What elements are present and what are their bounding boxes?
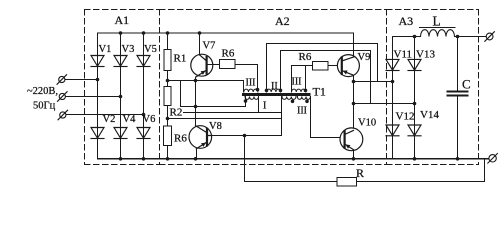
wire rectifier column V1/V2 <box>97 33 99 159</box>
diode V14 <box>408 125 421 136</box>
svg-text:V8: V8 <box>209 121 222 132</box>
svg-text:A1: A1 <box>115 13 130 27</box>
output terminal bottom <box>488 154 498 164</box>
input terminal 3 <box>58 110 68 120</box>
wire rail drop to winding III-left <box>243 81 245 93</box>
svg-text:R2: R2 <box>170 107 183 119</box>
diode V11 <box>386 59 399 70</box>
wire V7 emitter to V8 collector <box>195 77 197 126</box>
transformer winding IIIb bottom <box>282 97 310 100</box>
wire capacitor leads <box>457 37 459 159</box>
svg-text:V5: V5 <box>144 44 157 55</box>
wire phase 3 <box>66 114 144 116</box>
wire winding IIIb left column <box>281 97 283 136</box>
output terminal top <box>485 32 495 42</box>
wire winding I right jog <box>184 97 282 113</box>
wire winding I left connection <box>181 97 246 107</box>
transformer winding II <box>267 89 281 92</box>
diode V4 <box>114 128 127 139</box>
svg-text:C: C <box>462 77 471 92</box>
svg-text:R6: R6 <box>222 48 235 60</box>
wire phase 2 <box>66 96 121 98</box>
resistor R2 <box>164 81 171 119</box>
block A1 dashed border <box>85 10 160 165</box>
transformer winding I <box>245 97 259 100</box>
transistor V10 <box>340 128 363 159</box>
resistor R1 <box>164 33 171 81</box>
wire phase 1 <box>65 79 98 81</box>
diode V13 <box>408 59 421 70</box>
wire winding III-mid left end up <box>291 66 293 93</box>
wire bridge column V13/V14 <box>414 37 416 159</box>
svg-text:Т1: Т1 <box>313 85 326 99</box>
svg-text:V14: V14 <box>420 109 439 121</box>
input terminal 1 <box>57 75 67 85</box>
svg-text:V7: V7 <box>203 41 216 52</box>
diode V5 <box>137 56 150 67</box>
resistor R <box>337 178 357 187</box>
inductor L <box>421 30 455 37</box>
svg-text:V4: V4 <box>123 114 137 125</box>
wire bottom bus <box>98 158 489 160</box>
transformer winding III mid <box>292 89 306 92</box>
wire winding II left end up and over to bridge node <box>267 44 378 93</box>
svg-text:R: R <box>356 166 364 180</box>
wire top bus <box>98 32 354 34</box>
inductor L core line <box>420 27 456 29</box>
wire feedback bottom run <box>245 181 485 183</box>
wire V9 emitter to V10 collector <box>353 75 355 128</box>
svg-text:L: L <box>433 14 441 29</box>
transformer T1 core <box>242 93 311 96</box>
svg-text:V12: V12 <box>396 111 415 123</box>
diode V12 <box>386 125 399 136</box>
wire rectifier column V5/V6 <box>143 33 145 159</box>
svg-text:V2: V2 <box>103 114 116 125</box>
wire emitter rail V7 <box>168 80 244 82</box>
diode V6 <box>137 128 150 139</box>
svg-text:V6: V6 <box>143 114 156 125</box>
resistor R6 lower-left <box>164 119 172 159</box>
svg-text:A2: A2 <box>275 14 290 28</box>
wire output top rail <box>393 36 487 38</box>
svg-text:V1: V1 <box>99 44 112 55</box>
wire winding II right end up and over <box>281 51 371 104</box>
wire winding I left end down <box>245 97 247 107</box>
wire rectifier column V3/V4 <box>120 33 122 159</box>
svg-text:I: I <box>263 101 266 112</box>
transistor V8 <box>189 126 212 159</box>
wire to bridge node AC2 <box>354 103 415 105</box>
diode V3 <box>114 56 127 67</box>
svg-text:R1: R1 <box>174 53 187 65</box>
diode V2 <box>91 128 104 139</box>
wire winding III-mid right end stub <box>305 66 307 91</box>
wire R6b feed line <box>292 65 313 67</box>
wire bridge column V11/V12 <box>392 37 394 159</box>
transistor V7 <box>191 33 213 77</box>
svg-text:V10: V10 <box>358 118 376 129</box>
wire to bridge node AC1 <box>354 81 393 83</box>
block A3 dashed border <box>387 10 479 165</box>
svg-text:III: III <box>297 106 307 117</box>
wire V8 base line <box>212 135 282 137</box>
transistor V9 <box>337 33 359 77</box>
svg-text:R6: R6 <box>174 133 187 145</box>
svg-text:III: III <box>246 78 256 89</box>
svg-text:V3: V3 <box>122 44 135 55</box>
svg-text:V9: V9 <box>358 52 371 63</box>
block A2 dashed border <box>160 10 387 165</box>
wire L-path from rail down <box>180 81 182 107</box>
resistor R6 top (V7 base) <box>207 60 258 69</box>
transformer winding III top-left <box>244 89 258 92</box>
svg-text:III: III <box>292 77 302 88</box>
resistor R6 right (V9 base) <box>313 62 338 71</box>
capacitor C <box>448 92 468 96</box>
svg-text:A3: A3 <box>399 14 414 28</box>
diode V1 <box>91 56 104 67</box>
svg-text:II: II <box>271 81 278 92</box>
svg-text:V11: V11 <box>394 49 413 61</box>
svg-text:~220В,: ~220В, <box>27 86 58 97</box>
wire R6 to winding III-left right end <box>257 65 259 90</box>
wire feedback drop from V8 base node <box>244 136 246 182</box>
svg-text:V13: V13 <box>416 49 435 61</box>
wire feedback rise to output <box>484 159 486 182</box>
wire winding IIIb right end to V10 base <box>311 97 341 138</box>
input terminal 2 <box>58 92 68 102</box>
wire R2 bottom to V8 base column <box>168 118 282 120</box>
svg-text:R6: R6 <box>299 51 312 63</box>
svg-text:50Гц: 50Гц <box>33 101 56 112</box>
